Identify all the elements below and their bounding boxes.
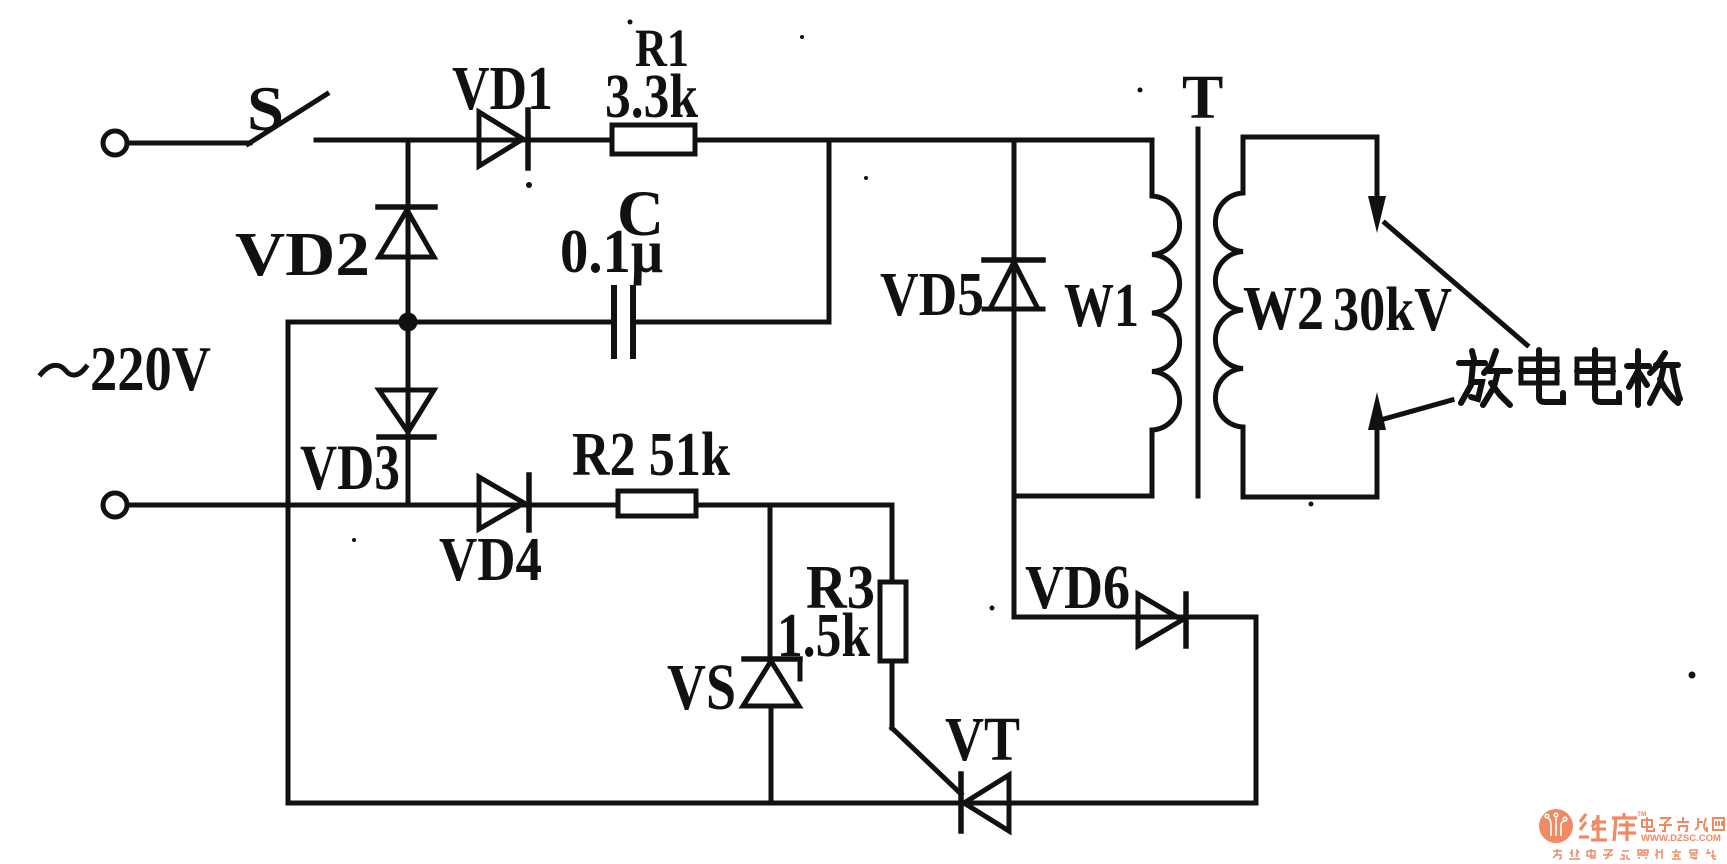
svg-text:VT: VT (945, 706, 1020, 774)
svg-text:1.5k: 1.5k (777, 602, 870, 670)
svg-text:VD5: VD5 (880, 261, 984, 329)
svg-text:VD6: VD6 (1025, 554, 1130, 622)
svg-text:S: S (247, 73, 284, 144)
svg-text:VD2: VD2 (235, 221, 370, 289)
svg-text:VD3: VD3 (300, 432, 400, 504)
svg-text:VD1: VD1 (452, 55, 553, 123)
svg-text:0.1μ: 0.1μ (560, 218, 663, 286)
svg-text:220V: 220V (90, 333, 211, 404)
svg-text:R2 51k: R2 51k (572, 421, 730, 489)
svg-text:W1: W1 (1064, 272, 1139, 340)
svg-text:W2: W2 (1243, 275, 1324, 343)
svg-text:VS: VS (667, 651, 736, 724)
svg-text:3.3k: 3.3k (605, 63, 698, 131)
svg-text:T: T (1182, 64, 1223, 132)
svg-text:30kV: 30kV (1333, 276, 1452, 344)
svg-text:WWW.DZSC.COM: WWW.DZSC.COM (1641, 833, 1721, 844)
svg-text:TM: TM (1637, 811, 1646, 818)
svg-text:VD4: VD4 (439, 526, 542, 594)
